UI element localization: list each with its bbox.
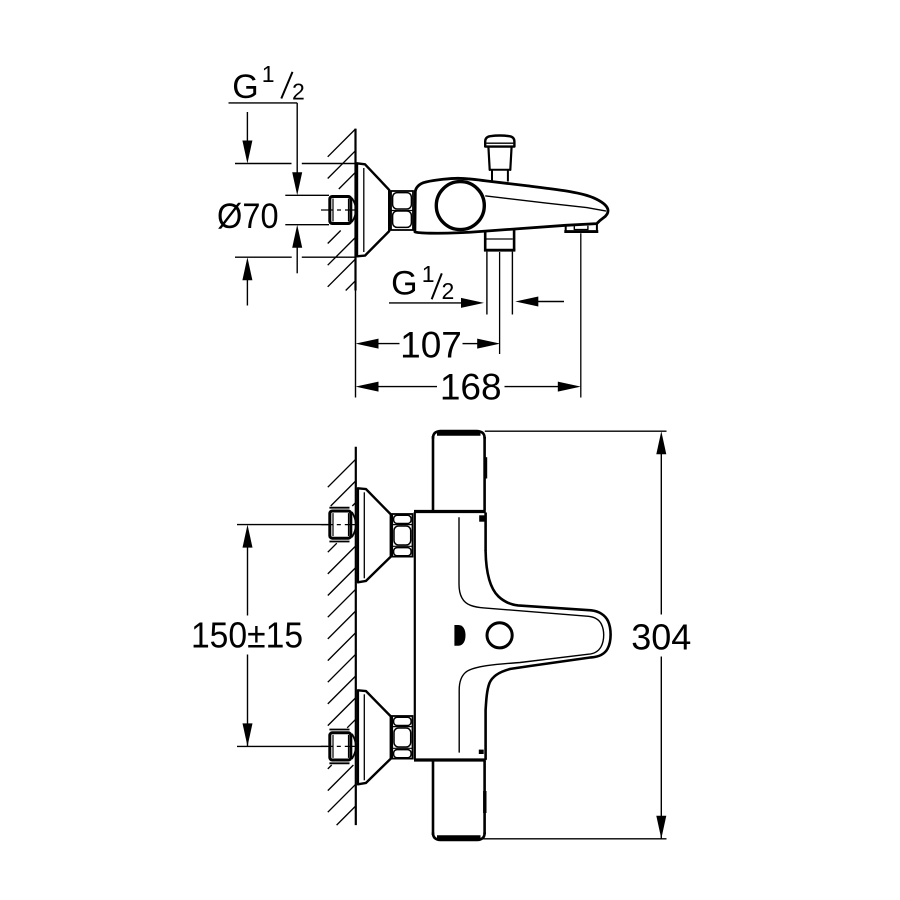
svg-text:2: 2 — [292, 79, 305, 105]
svg-text:2: 2 — [442, 278, 455, 304]
svg-text:107: 107 — [400, 325, 462, 366]
svg-text:168: 168 — [440, 367, 502, 408]
svg-text:Ø70: Ø70 — [217, 197, 279, 236]
svg-text:304: 304 — [631, 617, 691, 658]
svg-text:G: G — [391, 265, 417, 303]
svg-text:1: 1 — [262, 61, 275, 87]
svg-text:150±15: 150±15 — [191, 615, 303, 656]
svg-text:G: G — [232, 68, 258, 106]
svg-text:1: 1 — [422, 261, 435, 287]
